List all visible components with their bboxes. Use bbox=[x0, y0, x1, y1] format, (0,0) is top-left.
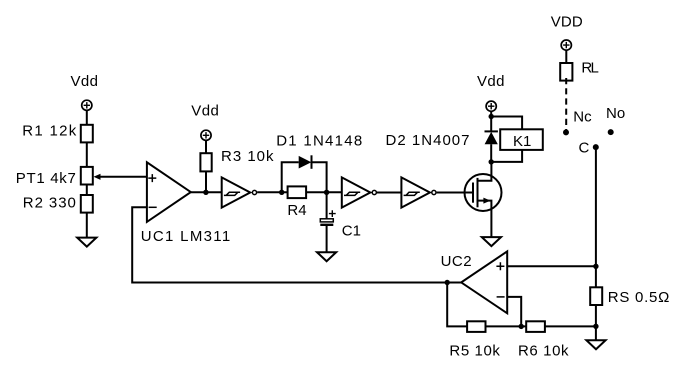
svg-text:K1: K1 bbox=[513, 133, 531, 150]
ground (left) bbox=[77, 238, 96, 247]
wire UC2 + input bbox=[507, 265, 596, 267]
power VDD (load) bbox=[551, 13, 583, 50]
svg-text:D1 1N4148: D1 1N4148 bbox=[276, 132, 362, 149]
wire UC2 output bbox=[447, 282, 461, 284]
svg-text:No: No bbox=[606, 105, 625, 122]
op-amp UC1 bbox=[141, 162, 231, 245]
node UC2 output bbox=[445, 280, 450, 285]
svg-text:UC2: UC2 bbox=[441, 253, 472, 270]
resistor R6 bbox=[518, 321, 569, 359]
wire D1 branch up-left bbox=[282, 162, 299, 192]
node Nc bbox=[563, 108, 592, 135]
wire D1 branch down-right bbox=[312, 162, 327, 192]
svg-text:RL: RL bbox=[581, 59, 599, 76]
power Vdd (relay) bbox=[477, 73, 505, 111]
resistor RL bbox=[560, 59, 599, 80]
svg-text:R6 10k: R6 10k bbox=[518, 342, 569, 359]
diode D2 bbox=[386, 131, 498, 149]
svg-text:R5 10k: R5 10k bbox=[449, 342, 500, 359]
wire bbox=[257, 191, 282, 193]
wire gate bbox=[437, 192, 472, 194]
node C bbox=[579, 139, 599, 156]
svg-text:RS 0.5Ω: RS 0.5Ω bbox=[608, 289, 670, 306]
node B bbox=[324, 190, 329, 195]
svg-text:C1: C1 bbox=[342, 222, 361, 239]
wire UC2 - input bbox=[507, 297, 521, 327]
node UC2 + bbox=[593, 264, 598, 269]
wire bbox=[86, 213, 88, 238]
wire bbox=[326, 192, 328, 219]
svg-text:D2 1N4007: D2 1N4007 bbox=[386, 132, 470, 149]
resistor R5 bbox=[449, 321, 500, 359]
schmitt inverter 2 bbox=[342, 177, 377, 207]
wire bbox=[490, 111, 492, 131]
resistor R1 bbox=[22, 123, 93, 143]
wire output down to R5 bbox=[447, 283, 467, 327]
wire bbox=[490, 144, 492, 162]
resistor R3 bbox=[200, 148, 274, 172]
svg-text:Vdd: Vdd bbox=[191, 102, 219, 119]
svg-text:Vdd: Vdd bbox=[477, 73, 505, 90]
wire bbox=[545, 325, 596, 327]
wire to K1 top bbox=[491, 117, 522, 130]
svg-text:R3 10k: R3 10k bbox=[221, 148, 274, 165]
resistor RS bbox=[590, 287, 669, 306]
op-amp UC2 bbox=[441, 251, 508, 313]
node RS bottom bbox=[593, 324, 598, 329]
wire C down to RS bbox=[595, 147, 597, 287]
svg-text:R4: R4 bbox=[287, 202, 306, 219]
wire bbox=[486, 325, 527, 327]
svg-text:Nc: Nc bbox=[573, 108, 592, 125]
wire UC1 inverting input feedback bbox=[132, 207, 447, 282]
wire bbox=[565, 50, 567, 63]
node R5/R6 bbox=[519, 324, 524, 329]
wire bbox=[86, 185, 88, 196]
wire K1 bottom to drain node bbox=[491, 149, 522, 162]
ground (bottom right) bbox=[586, 340, 605, 349]
svg-text:PT1 4k7: PT1 4k7 bbox=[16, 170, 76, 187]
node No bbox=[606, 105, 625, 135]
schmitt inverter 1 bbox=[222, 177, 257, 207]
svg-text:UC1 LM311: UC1 LM311 bbox=[141, 228, 231, 245]
wire bbox=[326, 226, 328, 252]
potentiometer PT1 bbox=[16, 167, 93, 187]
transistor Q1 (n-MOSFET) bbox=[465, 162, 502, 237]
wire dashed to Nc bbox=[565, 78, 567, 132]
svg-text:VDD: VDD bbox=[551, 13, 583, 30]
node drain bbox=[489, 159, 494, 164]
wire bbox=[595, 305, 597, 340]
power Vdd (middle) bbox=[191, 102, 219, 140]
svg-text:Vdd: Vdd bbox=[71, 73, 99, 90]
resistor R2 bbox=[23, 195, 93, 213]
capacitor C1 bbox=[320, 210, 361, 239]
relay coil K1 bbox=[500, 129, 543, 150]
wire bbox=[377, 192, 402, 194]
svg-text:R2 330: R2 330 bbox=[23, 195, 76, 212]
wire bbox=[205, 171, 207, 192]
node relay top bbox=[489, 114, 494, 119]
svg-text:R1 12k: R1 12k bbox=[22, 123, 77, 140]
schmitt inverter 3 bbox=[401, 177, 436, 207]
diode D1 bbox=[276, 132, 362, 168]
power Vdd (left) bbox=[71, 73, 99, 110]
wire bbox=[86, 142, 88, 167]
wire bbox=[205, 140, 207, 153]
wire UC1 output bbox=[191, 191, 222, 193]
ground (under Q1) bbox=[482, 237, 501, 246]
ground (under C1) bbox=[317, 252, 336, 261]
wire bbox=[86, 110, 88, 124]
resistor R4 bbox=[282, 186, 342, 218]
node UC1 output bbox=[203, 190, 208, 195]
node A bbox=[279, 190, 284, 195]
svg-text:C: C bbox=[579, 139, 590, 156]
wire wiper to UC1 + input bbox=[94, 174, 147, 180]
